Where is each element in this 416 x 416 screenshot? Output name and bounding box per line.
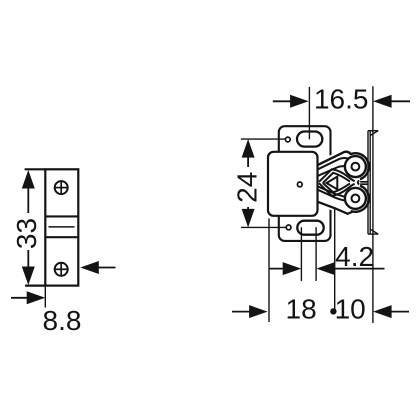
catch body	[268, 152, 318, 216]
roller upper hub	[352, 163, 360, 171]
dim 24 arrow down	[242, 209, 255, 228]
strike plate bottom edge extension	[25, 285, 45, 287]
dim 18 left arrow	[249, 305, 268, 318]
strike plate outline	[45, 169, 78, 285]
extension line 16.5 left	[308, 87, 310, 139]
extension line 18 left	[268, 219, 270, 323]
lower arm band lower line	[317, 189, 347, 201]
dim 8.8 arrow right	[27, 291, 46, 304]
neck link lines	[360, 181, 368, 183]
extension line 4.2 right	[315, 227, 317, 281]
spring outer diamond upper	[319, 169, 355, 182]
upper arm middle edge	[317, 158, 351, 170]
roller lower	[345, 188, 366, 209]
catch lower slot	[297, 221, 323, 235]
upper arm outer edge	[316, 152, 369, 180]
strike plate top edge extension	[25, 168, 46, 170]
lower arm outer edge	[316, 201, 352, 214]
svg-text:10: 10	[335, 293, 366, 324]
dim 33 line upper shaft	[27, 186, 29, 213]
spring inner diamond upper	[323, 173, 350, 183]
spring inner diamond lower	[323, 183, 350, 192]
lower roller yoke arc	[351, 186, 369, 212]
dim 24 lower shaft	[247, 207, 249, 210]
screw S2 bottom	[55, 263, 68, 276]
extension line 24 top	[241, 138, 286, 140]
lower arm band upper line	[317, 186, 347, 197]
chain dot	[330, 308, 336, 314]
strike plate mid band lower line	[45, 236, 78, 238]
catch body center hole	[297, 182, 302, 187]
svg-text:24: 24	[232, 172, 263, 203]
catch upper slot	[297, 132, 322, 147]
upper arm inner edge	[317, 166, 346, 176]
dim 4.2 right arrow	[316, 262, 335, 275]
extension line right vertical	[372, 86, 374, 323]
catch lower hole	[286, 225, 291, 230]
strike plate mid band upper line	[45, 215, 78, 217]
spring triangle	[327, 177, 338, 190]
door edge strip	[368, 131, 378, 234]
dim 24 upper shaft	[247, 156, 249, 167]
dim 33 arrow up	[22, 170, 35, 189]
dim 33 line lower shaft	[27, 250, 29, 269]
roller lower hub	[352, 195, 360, 203]
dim 24 arrow up	[242, 139, 255, 158]
svg-text:8.8: 8.8	[43, 305, 82, 336]
strike plate latch slot line	[49, 226, 75, 228]
strike plate left edge lower extension	[44, 287, 46, 308]
dim 16.5 right arrow	[373, 95, 392, 108]
dim 4.2 left arrow	[283, 262, 302, 275]
extension line 24 bottom	[241, 226, 286, 228]
svg-text:33: 33	[11, 218, 42, 249]
dim 16.5 left arrow	[290, 95, 309, 108]
extension line chain mid	[334, 209, 336, 312]
extension line 4.2 left	[300, 227, 302, 281]
catch upper hole	[285, 137, 290, 142]
dim 33 arrow down	[22, 267, 35, 286]
catch mounting plate	[279, 126, 331, 241]
roller mechanism silhouette	[316, 148, 366, 216]
neck arc	[358, 181, 359, 185]
arrow at plate right edge	[80, 261, 99, 274]
svg-text:4.2: 4.2	[335, 241, 374, 272]
screw S1 top	[55, 181, 68, 194]
spring outer diamond lower	[319, 183, 355, 196]
svg-text:16.5: 16.5	[314, 83, 369, 114]
dim 10 right arrow	[373, 305, 392, 318]
roller upper	[345, 156, 366, 177]
svg-text:18: 18	[286, 293, 317, 324]
